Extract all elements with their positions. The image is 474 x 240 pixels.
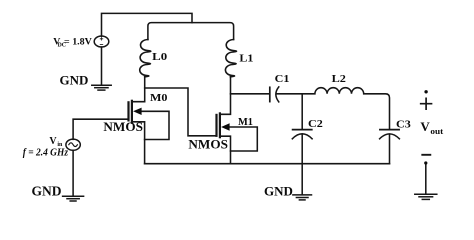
svg-text:GND: GND bbox=[32, 183, 62, 198]
svg-text:f = 2.4 GHz: f = 2.4 GHz bbox=[23, 148, 68, 159]
svg-text:L1: L1 bbox=[239, 53, 253, 65]
svg-text:M0: M0 bbox=[150, 92, 168, 104]
svg-text:GND: GND bbox=[264, 183, 293, 198]
svg-text:= 1.8V: = 1.8V bbox=[64, 36, 92, 47]
svg-text:NMOS: NMOS bbox=[188, 138, 228, 152]
svg-text:L2: L2 bbox=[332, 73, 347, 85]
svg-text:C3: C3 bbox=[396, 118, 411, 130]
svg-text:out: out bbox=[430, 127, 443, 136]
svg-text:GND: GND bbox=[60, 73, 89, 88]
svg-text:NMOS: NMOS bbox=[103, 120, 143, 134]
svg-text:C2: C2 bbox=[308, 118, 323, 130]
svg-text:C1: C1 bbox=[275, 73, 290, 85]
svg-text:L0: L0 bbox=[152, 51, 168, 63]
svg-text:V: V bbox=[49, 136, 57, 147]
svg-text:V: V bbox=[420, 119, 430, 134]
svg-text:M1: M1 bbox=[238, 116, 253, 128]
